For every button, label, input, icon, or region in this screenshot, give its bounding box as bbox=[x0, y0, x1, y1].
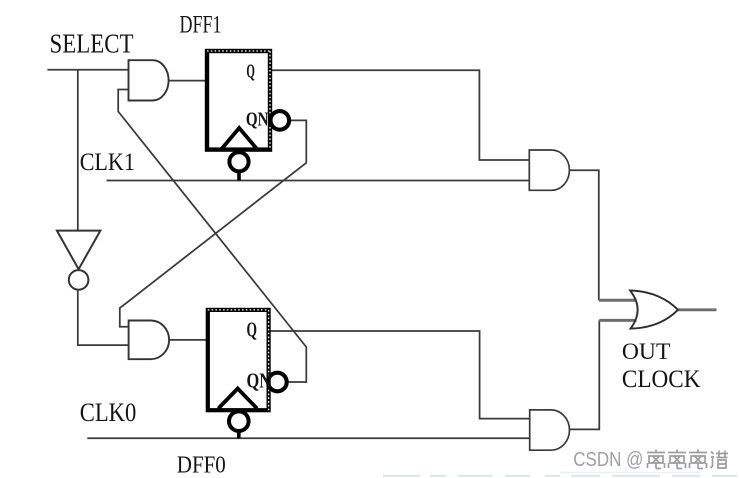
svg-text:SELECT: SELECT bbox=[50, 28, 134, 58]
svg-text:DFF0: DFF0 bbox=[177, 453, 226, 478]
svg-text:DFF1: DFF1 bbox=[180, 12, 222, 39]
svg-text:QN: QN bbox=[247, 368, 272, 392]
svg-text:Q: Q bbox=[247, 317, 258, 341]
svg-text:CLK0: CLK0 bbox=[80, 398, 137, 427]
svg-text:Q: Q bbox=[246, 61, 255, 83]
svg-text:CLOCK: CLOCK bbox=[622, 366, 701, 393]
svg-text:CLK1: CLK1 bbox=[80, 149, 135, 176]
svg-text:CSDN @: CSDN @ bbox=[573, 449, 643, 471]
svg-text:OUT: OUT bbox=[622, 339, 671, 364]
svg-text:QN: QN bbox=[246, 108, 269, 130]
